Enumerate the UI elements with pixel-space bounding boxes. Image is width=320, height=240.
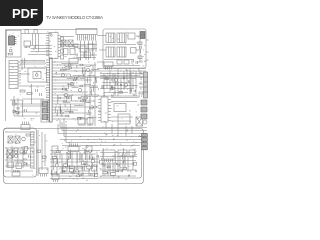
svg-text:PDF: PDF [12, 6, 38, 21]
wire: audio drops [55, 152, 90, 159]
wire: jungle pin out y83 [52, 82, 75, 84]
IC U403 [118, 114, 130, 124]
wire: audio links [59, 166, 89, 176]
capacitor bank right [102, 76, 136, 176]
capacitor C602 [25, 151, 27, 154]
capacitor C603 [29, 155, 31, 158]
resistor R503 [77, 166, 82, 171]
capacitor C701 [76, 54, 78, 57]
wire: jungle pin out y113 [52, 112, 92, 114]
wire: mid vertical x90 [89, 70, 91, 126]
resistor R205 [70, 111, 74, 113]
wire: output verticals [105, 156, 125, 176]
capacitor C803 [40, 93, 42, 96]
IC U506 [129, 150, 135, 156]
transformer T603 chopper [31, 132, 35, 146]
wire: bus line 6 [66, 142, 147, 144]
connector CN401 [144, 72, 148, 98]
diode D501 [62, 170, 65, 173]
IC U202 [78, 118, 85, 126]
connector CN601 comb [39, 168, 48, 177]
wire: bottom mid drops [52, 152, 97, 177]
IC U1 micro-controller [49, 33, 58, 59]
wire: U701 bus rail [60, 44, 97, 46]
wire: bottom mid rails [50, 151, 100, 155]
resistor R502 [70, 166, 75, 171]
optocoupler PC601 [15, 151, 18, 158]
connector CN403 [141, 107, 147, 112]
diode D801 [16, 111, 19, 114]
wire: left chain links [10, 100, 44, 116]
wire: right mid links [107, 71, 133, 93]
diode D601 [24, 162, 27, 165]
wire: right vertical x104 [103, 74, 105, 97]
tuner block FM1 [106, 33, 115, 43]
IC U703 [88, 44, 94, 50]
wire: tuner internal rails [104, 36, 140, 60]
heatsink HS601 [31, 148, 35, 168]
capacitor C601 [22, 137, 26, 141]
resistor R302 [111, 88, 115, 90]
connector CN602 comb [21, 122, 30, 130]
transistor Q302 [124, 83, 127, 86]
wire: syscon to jungle 4 [21, 85, 45, 87]
wire: key matrix row 3 [31, 51, 53, 53]
capacitor C606 [24, 158, 26, 160]
transformer T602 [15, 136, 20, 143]
pulse waveform key SW1 [25, 29, 28, 33]
transistor Q201 [61, 73, 64, 76]
connector CN504 [142, 138, 148, 141]
pins: U401 left comb [98, 100, 101, 121]
wire: bottom right drops [103, 153, 133, 177]
transformer T101 [61, 40, 66, 46]
transistor Q202 [70, 82, 73, 85]
wire: bus line 1 [60, 127, 147, 129]
wire: psu right verticals [38, 130, 45, 176]
capacitor C604 [15, 160, 17, 162]
connector CN801 frame [41, 100, 49, 122]
resistor R401 [139, 92, 143, 94]
wire: syscon to jungle 3 [21, 73, 30, 75]
filter X102 [70, 49, 75, 55]
wire: bottom boundary [98, 150, 142, 178]
pins: U401 right comb [108, 100, 111, 121]
wire: syscon to jungle 1 [21, 61, 45, 63]
wire: jungle pin out y80 [52, 79, 92, 81]
wire: output rail y170 [100, 169, 136, 171]
filter X101 [63, 49, 68, 55]
wire: jungle pin out y62 [52, 61, 78, 63]
wire: right vertical x118 [117, 69, 119, 97]
IC U802 keypad encoder [24, 41, 31, 48]
wire: jungle pin out y71 [52, 70, 99, 72]
wire: jungle pin out y68 [52, 67, 85, 69]
wire: deflection to bus drops [106, 122, 132, 137]
wire: right mid verticals extra [115, 69, 139, 96]
resistor R301 [105, 78, 109, 80]
IC U401 vertical DIP [101, 97, 108, 122]
wire: tuner ladder link [137, 39, 143, 63]
connector CN502 comb [52, 175, 59, 183]
resistor column RA3 [61, 49, 64, 53]
IC U2 chroma [69, 59, 78, 64]
wire: vertical deflection rails [111, 98, 139, 122]
resistor R204 [90, 107, 94, 109]
IC U201 jungle body [50, 58, 53, 122]
wire: tuner right stubs [146, 40, 149, 60]
wire: psu internal rails [5, 146, 30, 170]
connector CN603 comb [12, 170, 20, 176]
wire: right vertical x124 [123, 71, 125, 90]
transformer T601 [8, 136, 13, 143]
tuner block FM4 [106, 47, 115, 57]
transistor Q601 [23, 152, 26, 155]
capacitor C806 [17, 107, 19, 109]
IC U501 [52, 146, 58, 152]
power supply inner frame [4, 128, 37, 177]
pin number labels jungle [43, 62, 58, 117]
connector CN501 comb [68, 144, 79, 152]
resistor R504 [107, 166, 111, 168]
wire: jungle pin out y89 [52, 88, 68, 90]
wire: top horizontal rail [6, 29, 98, 31]
capacitor C303 [136, 61, 138, 64]
capacitor C501 [85, 165, 90, 171]
IC U602 regulator [16, 163, 22, 169]
pulse waveform key SW2 [34, 29, 37, 33]
wire: right vertical x110 [109, 71, 111, 92]
wire: psu top rail [5, 131, 35, 133]
transformer T102 [68, 40, 73, 46]
wire: jungle pin out y98 [52, 97, 72, 99]
tuner shield frame [103, 29, 146, 68]
connector CN801 pin 3 [42, 115, 48, 120]
capacitor C802 [36, 89, 38, 92]
bridge D401 [136, 117, 143, 126]
connector CN801 pin 2 [42, 108, 48, 113]
wire: jungle pin out y110 [52, 109, 78, 111]
wire: jungle pin out y65 [52, 64, 96, 66]
wire: syscon top rails [20, 58, 45, 70]
IC U601 regulator [8, 162, 14, 168]
wire: bottom right rails [100, 153, 137, 161]
resistor R506 [123, 168, 127, 170]
wire: key column drop 2 [35, 34, 37, 49]
wire: bottom extra links [50, 148, 136, 178]
resistor R201 [61, 69, 65, 71]
wire: key matrix row 4 [28, 54, 52, 56]
IC U801 IR preamp [9, 36, 17, 45]
wire: jungle pin out y92 [52, 91, 88, 93]
IC U302 [117, 60, 122, 64]
wire: eeprom cluster rails [78, 49, 97, 61]
capacitor C607 [27, 164, 29, 166]
wire: bus line 4 [64, 136, 147, 138]
transformer T604 [7, 150, 13, 158]
connector J2 tuner output comb [104, 62, 113, 70]
capacitor C801 [9, 49, 12, 52]
resistor R601 [26, 134, 30, 136]
wire: right vertical x130 [129, 69, 131, 95]
wire: right rail y73.5 [100, 73, 143, 75]
antenna connector J1 [140, 32, 145, 39]
capacitor bank bottom [55, 153, 137, 177]
IC U203 [87, 118, 93, 126]
tuner block FM2 [117, 33, 126, 43]
pins: U701 comb [78, 35, 96, 41]
wire: jungle vertical links [55, 65, 96, 116]
wire: key column drop 1 [32, 34, 34, 46]
connector CN505 [142, 142, 148, 145]
pins: U1 left side [46, 36, 49, 56]
IC U303 [124, 60, 129, 64]
connector CN506 [142, 146, 148, 149]
wire: audio rail 2 [50, 161, 100, 163]
IC U504 output [103, 150, 115, 162]
resistor R804 [12, 103, 16, 105]
wire: lower left links [14, 99, 44, 116]
transistor Q205 [86, 68, 89, 71]
wire: mid column drops [81, 41, 97, 61]
diode D502 [71, 170, 74, 173]
resistor R505 [116, 170, 120, 172]
connector CN503 [142, 134, 148, 137]
wire: jungle pin out y104 [52, 103, 85, 105]
resistor column RA4 [61, 55, 64, 59]
connector CN404 [141, 114, 147, 119]
resistor R602 [14, 148, 18, 151]
tuner ladder D302 [138, 56, 142, 59]
resistor array jungle [58, 64, 96, 120]
resistor R202 [75, 77, 79, 79]
wire: jungle pin out y95 [52, 94, 99, 96]
wire: right rail y68 [97, 68, 146, 70]
text labels bottom [52, 127, 140, 180]
wire: jungle stubs extra [61, 64, 99, 118]
wire: bus line 7 [62, 145, 140, 147]
capacitor C401 stack [139, 71, 143, 80]
capacitor C502 [92, 165, 97, 171]
capacitor C805 [13, 100, 15, 102]
pins: syscon right stubs [18, 62, 21, 86]
IC U702 [80, 46, 86, 52]
resistor R303 [119, 92, 123, 94]
wire: tuner left stubs [97, 36, 106, 63]
resistor column RA2 [61, 43, 64, 47]
capacitor C804 [25, 109, 27, 112]
transistor Q301 [114, 78, 117, 81]
wire: mid vertical x95 [94, 62, 96, 126]
wire: right mid rails [100, 76, 140, 93]
connector CN402 [141, 100, 147, 105]
wire: audio rail 1 [50, 158, 100, 160]
resistor R701 [74, 44, 78, 48]
transistor Q203 [64, 93, 67, 96]
capacitor C605 [20, 160, 22, 162]
IC U701 memory DIP [76, 29, 97, 35]
wire: bus line 2 [62, 130, 147, 132]
resistor R203 [83, 99, 87, 101]
resistor R605 [37, 150, 41, 152]
wire: key matrix row 2 [31, 48, 53, 50]
wire: right rail y71 [99, 70, 146, 72]
tuner ladder D301 [138, 42, 142, 45]
wire: sensor to key row [21, 33, 52, 35]
wire: left lower verticals [14, 84, 32, 116]
wire: syscon to jungle 2 [21, 67, 45, 69]
resistor R801 [8, 53, 12, 55]
resonator X801 [33, 72, 41, 79]
resistor R606 [43, 156, 47, 158]
resistor R802 [20, 90, 25, 92]
capacitor C301 [140, 46, 142, 53]
wire: psu mid rails [5, 148, 34, 171]
wire: jungle pin out y74 [52, 73, 70, 75]
IC U502 [86, 146, 92, 152]
wire: key column drop 3 [38, 34, 40, 52]
wire: jungle pin out y119 [52, 118, 88, 120]
IC U402 [114, 104, 126, 112]
resistor R603 [20, 150, 24, 153]
resistor R604 [25, 147, 28, 151]
remote sensor box frame [6, 30, 21, 57]
IC U802 syscon ladder [9, 61, 18, 89]
diode D802 [13, 110, 16, 113]
IC U301 IF amp [131, 48, 137, 54]
resistor column RA1 [61, 37, 64, 41]
wire: tuner bottom rail [104, 65, 140, 67]
IC U505 [118, 150, 127, 156]
power supply outer frame [4, 129, 144, 184]
wire: top-mid rails [60, 37, 96, 58]
resistor R803 [27, 93, 32, 95]
pins: jungle left comb [46, 60, 50, 120]
junction dots [55, 61, 143, 146]
degauss coil L401 [143, 120, 147, 124]
wire: bus line 5 [60, 139, 147, 141]
wire: bus line 3 [58, 133, 147, 135]
pins: U1 right side [58, 36, 61, 57]
wire: key matrix row 1 [31, 45, 53, 47]
tuner block FM3 [128, 33, 135, 39]
connector CN801 pin 1 [42, 102, 48, 107]
wire: jungle video bus [52, 76, 145, 78]
transistor Q204 [78, 88, 81, 91]
crystal box frame [28, 68, 47, 82]
capacitor C402 stack [139, 81, 143, 90]
wire: mid vertical x85 [84, 66, 86, 126]
wire: right vertical x136 [135, 71, 137, 96]
wire: left border spine [5, 30, 7, 122]
wire: output rail y164 [100, 163, 136, 165]
wire: jungle pin out y107 [52, 106, 99, 108]
resistor R501 [62, 166, 67, 171]
wire: jungle pin out y86 [52, 85, 98, 87]
IC U704 [84, 52, 91, 58]
tuner block FM5 [117, 47, 126, 57]
wire: audio bottom rail [52, 175, 98, 177]
capacitor C302 [132, 60, 134, 63]
resistor R206 [78, 117, 82, 119]
wire: right rail y96 [97, 95, 140, 97]
svg-text:TV SANKEY MODELO CT-2198A: TV SANKEY MODELO CT-2198A [46, 15, 103, 20]
resistor array bottom [52, 150, 136, 177]
wire: jungle pin out y116 [52, 115, 70, 117]
wire: jungle pin out y101 [52, 100, 95, 102]
wire: bus left drops [58, 118, 66, 143]
capacitor C702 [79, 58, 81, 61]
